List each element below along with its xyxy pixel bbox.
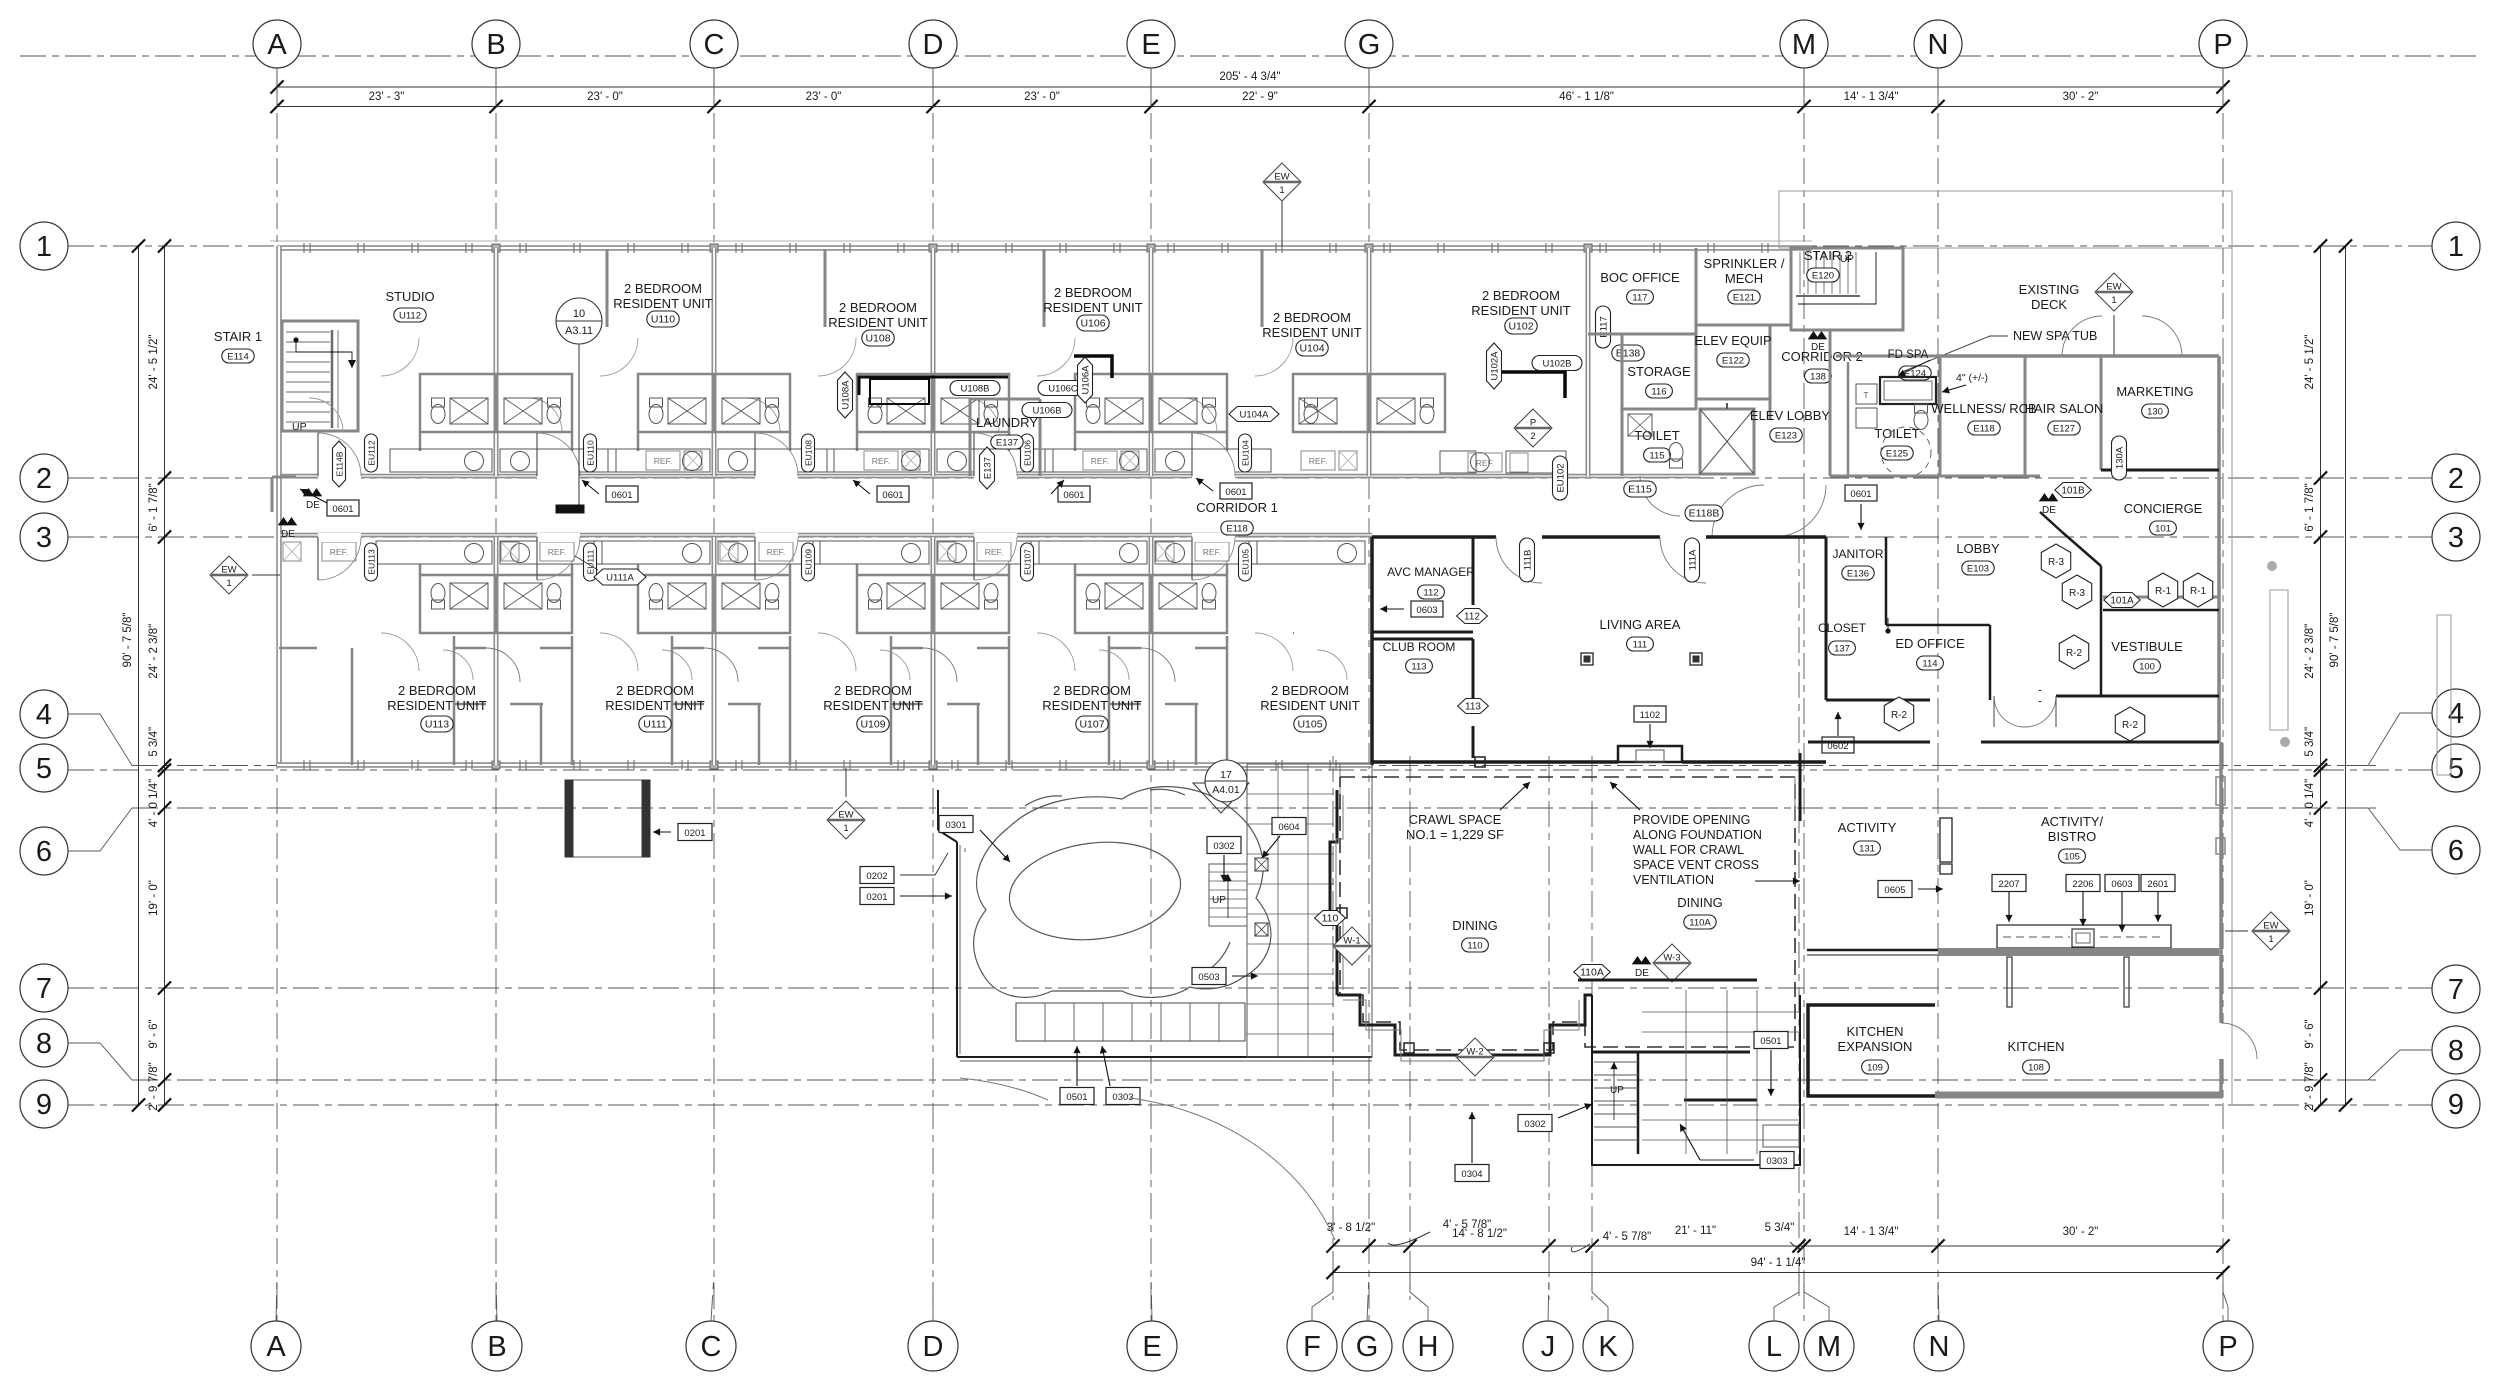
svg-text:9' - 6": 9' - 6" [2304,1019,2316,1048]
WELLNESS/RCB [2024,356,2027,476]
svg-text:2206: 2206 [2072,879,2093,890]
svg-text:24' - 5 1/2": 24' - 5 1/2" [148,335,160,390]
svg-text:4' - 0 1/4": 4' - 0 1/4" [2304,779,2316,827]
svg-text:REF.: REF. [654,456,672,466]
svg-text:4" (+/-): 4" (+/-) [1956,372,1988,384]
svg-text:23' - 3": 23' - 3" [369,91,405,103]
deck door arcs [2062,316,2102,356]
svg-text:ELEV LOBBY: ELEV LOBBY [1750,408,1831,423]
svg-text:109: 109 [1867,1063,1883,1074]
svg-text:H: H [1418,1331,1439,1363]
svg-text:U109: U109 [860,719,885,731]
svg-text:D: D [923,29,944,61]
lower unit inner door arcs [381,633,419,671]
svg-text:30' - 2": 30' - 2" [2063,91,2099,103]
svg-text:M: M [1792,29,1816,61]
svg-text:108: 108 [2028,1063,2044,1074]
svg-text:EU106: EU106 [1023,440,1033,466]
svg-text:4: 4 [36,699,52,731]
svg-text:U105: U105 [1297,719,1322,731]
svg-text:9' - 6": 9' - 6" [148,1019,160,1048]
svg-text:REF.: REF. [1203,547,1221,557]
svg-text:8: 8 [36,1028,52,1060]
svg-text:23' - 0": 23' - 0" [1024,91,1060,103]
EW/1 diamond top [1263,163,1301,201]
svg-text:6: 6 [36,836,52,868]
svg-text:6' - 1 7/8": 6' - 1 7/8" [2304,483,2316,531]
corridor west end jog [272,476,296,479]
svg-text:0303: 0303 [1112,1092,1133,1103]
cluster-to-counter connectors upper [419,432,422,451]
0201 / 0202 labels with mat [565,780,650,857]
svg-text:U102B: U102B [1542,359,1571,370]
svg-text:110: 110 [1467,941,1482,952]
svg-text:BISTRO: BISTRO [2048,829,2096,844]
left dimension lines [138,246,140,1105]
svg-text:0601: 0601 [1850,489,1871,500]
svg-text:131: 131 [1859,844,1875,855]
svg-text:2 BEDROOM: 2 BEDROOM [1482,288,1560,303]
0602 tag [1822,737,1854,753]
svg-text:117: 117 [1632,293,1647,304]
svg-text:P: P [2218,1331,2237,1363]
svg-text:U106B: U106B [1032,406,1061,417]
bottom dimension lines [1333,1245,2223,1247]
svg-text:4' - 0 1/4": 4' - 0 1/4" [148,779,160,827]
svg-text:0201: 0201 [684,828,705,839]
svg-text:U102A: U102A [1490,351,1501,381]
svg-text:U108: U108 [865,333,890,345]
svg-text:1: 1 [1279,185,1284,196]
svg-text:19' - 0": 19' - 0" [2304,880,2316,916]
svg-text:116: 116 [1651,387,1666,398]
svg-text:0302: 0302 [1524,1119,1545,1130]
section cut bar [556,505,584,513]
corridor end door arcs [1712,485,1764,537]
JANITOR [1825,537,1828,700]
svg-text:T: T [1864,391,1869,400]
svg-text:U111A: U111A [606,573,634,584]
svg-text:U108B: U108B [960,384,989,395]
kitchen north (gray) wall [1938,948,2219,956]
svg-text:AVC MANAGER: AVC MANAGER [1387,565,1475,579]
corridor 1 south wall [280,533,1372,538]
svg-text:RESIDENT UNIT: RESIDENT UNIT [605,698,704,713]
SPRINKLER/MECH room [1696,324,1791,327]
svg-text:W-1: W-1 [1343,936,1360,947]
svg-text:EXISTING: EXISTING [2019,282,2080,297]
vertical grid lines [277,68,2223,1321]
svg-text:STAIR 1: STAIR 1 [214,329,262,344]
living area south wall [1372,760,1618,764]
svg-text:EU105: EU105 [1241,549,1251,575]
lower row entry doors [318,533,361,542]
svg-text:NEW SPA TUB: NEW SPA TUB [2013,329,2097,343]
svg-text:PROVIDE OPENING: PROVIDE OPENING [1633,813,1750,827]
STAIR 2 [1791,248,1903,330]
corridor2 / E124 walls [1829,330,1832,476]
upper unit inner door arcs [381,338,419,376]
110 / 110A hexagons [1315,911,1346,926]
lower row kitchenette counters [283,542,301,561]
svg-text:E122: E122 [1722,356,1744,367]
svg-text:EU102: EU102 [1556,463,1567,492]
svg-text:110A: 110A [1689,918,1711,929]
concierge desk diagonal [2040,512,2062,532]
svg-text:0301: 0301 [945,820,966,831]
svg-text:EU110: EU110 [586,440,596,466]
svg-text:90' - 7 5/8": 90' - 7 5/8" [2329,613,2341,668]
top datum dashed line through letter bubbles [20,55,2480,57]
svg-text:E: E [1141,29,1160,61]
svg-text:5 3/4": 5 3/4" [1765,1222,1795,1234]
svg-text:E118: E118 [1226,524,1247,535]
svg-text:A: A [266,1331,286,1363]
lobby south walls [1826,699,1930,702]
EW/1 diamond left [210,556,248,594]
existing deck outline (thin) [1779,191,2232,248]
svg-text:BOC OFFICE: BOC OFFICE [1600,270,1680,285]
U102 kitchen counter [1506,451,1566,473]
pilaster squares at dividers (top wall) [492,244,500,252]
svg-text:23' - 0": 23' - 0" [587,91,623,103]
svg-text:P: P [1530,418,1536,429]
svg-text:REF.: REF. [330,547,348,557]
svg-text:N: N [1929,1331,1950,1363]
grid bubbles top [253,20,301,68]
svg-text:R-1: R-1 [2190,586,2207,597]
svg-text:UP: UP [1212,895,1226,906]
upper unit bedroom partial walls [606,249,609,327]
bistro tall cabinet [1940,818,1952,862]
svg-text:111B: 111B [1523,550,1534,571]
dining bay south walls [1337,995,1592,1055]
svg-text:EW: EW [2106,282,2121,293]
svg-text:2 BEDROOM: 2 BEDROOM [1053,683,1131,698]
svg-text:2 BEDROOM: 2 BEDROOM [624,281,702,296]
laundry room [969,399,972,476]
svg-text:DE: DE [306,500,320,511]
svg-text:EW: EW [2263,921,2278,932]
DE marks [300,489,327,503]
svg-text:J: J [1541,1331,1556,1363]
svg-text:ED OFFICE: ED OFFICE [1895,636,1965,651]
svg-text:112: 112 [1464,612,1480,623]
svg-text:N: N [1928,29,1949,61]
patio curvy deck shape [974,787,1271,998]
svg-text:B: B [487,1331,506,1363]
svg-text:G: G [1358,29,1381,61]
bold new-wall segments near laundry [859,377,1008,395]
svg-text:23' - 0": 23' - 0" [806,91,842,103]
svg-text:101B: 101B [2061,486,2085,497]
svg-text:137: 137 [1834,644,1850,655]
lower unit closet walls [454,703,486,706]
svg-text:RESIDENT UNIT: RESIDENT UNIT [613,296,712,311]
hex tag R-3 [2062,575,2091,609]
counter labels [1992,875,2026,892]
svg-text:6: 6 [2448,835,2464,867]
svg-text:24' - 5 1/2": 24' - 5 1/2" [2304,335,2316,390]
svg-text:E125: E125 [1886,449,1908,460]
dining west wall with bays [1330,790,1337,995]
upper row kitchenette counters [390,449,492,472]
svg-text:VENTILATION: VENTILATION [1633,873,1714,887]
svg-text:W-3: W-3 [1663,953,1680,964]
corridor 1 north wall [280,474,1700,479]
svg-text:9: 9 [36,1089,52,1121]
planter arcs on blob [1025,796,1062,806]
svg-text:9: 9 [2448,1089,2464,1121]
svg-text:24' - 2 3/8": 24' - 2 3/8" [2304,624,2316,679]
svg-text:1: 1 [36,231,52,263]
bath cluster at x=933 upper [857,374,1009,432]
svg-text:3: 3 [2448,522,2464,554]
svg-text:REF.: REF. [872,456,890,466]
svg-text:2 BEDROOM: 2 BEDROOM [1273,310,1351,325]
svg-text:5: 5 [2448,753,2464,785]
svg-text:112: 112 [1423,588,1438,599]
EW/1 diamond deck [2095,273,2133,311]
svg-text:1: 1 [2268,934,2273,945]
svg-text:UP: UP [292,421,307,433]
svg-text:WELLNESS/ RCB: WELLNESS/ RCB [1931,401,2036,416]
right wing east wall [2217,356,2221,742]
section marker 10/A3.11 [578,343,580,506]
svg-text:RESIDENT UNIT: RESIDENT UNIT [1260,698,1359,713]
patio stair (UP) [1209,864,1247,926]
svg-text:R-2: R-2 [2122,720,2139,731]
svg-text:1102: 1102 [1640,710,1660,721]
svg-text:114: 114 [1922,659,1937,670]
svg-text:1: 1 [2111,295,2116,306]
svg-text:0201: 0201 [866,892,887,903]
kitchen south gray wall [1935,1092,2223,1099]
corridor ext south wall (lobby top) [1830,475,2040,478]
grid bubbles bottom [251,1321,301,1371]
svg-text:C: C [704,29,725,61]
patio inner oval [1004,833,1186,949]
svg-text:REF.: REF. [548,547,566,557]
kitchen posts [2007,957,2012,1007]
svg-text:R-3: R-3 [2048,557,2065,568]
svg-text:U106A: U106A [1081,365,1092,395]
svg-text:EU112: EU112 [367,440,377,466]
svg-text:STORAGE: STORAGE [1627,364,1691,379]
svg-text:C: C [701,1331,722,1363]
spa tub [1880,377,1936,404]
HAIR SALON [2100,356,2103,470]
svg-text:U113: U113 [425,719,449,731]
bath cluster at x=714 lower [638,575,790,633]
svg-text:EW: EW [1274,172,1289,183]
W diamonds [1333,927,1371,965]
svg-text:RESIDENT UNIT: RESIDENT UNIT [823,698,922,713]
svg-text:CLUB ROOM: CLUB ROOM [1383,640,1456,654]
svg-text:14' - 1 3/4": 14' - 1 3/4" [1844,1226,1899,1238]
BOC OFFICE walls [1588,333,1696,336]
svg-text:KITCHEN: KITCHEN [2007,1039,2064,1054]
svg-text:FD SPA: FD SPA [1888,349,1929,361]
elevator shaft [1700,409,1754,474]
svg-text:EW: EW [838,810,853,821]
svg-text:0202: 0202 [866,871,887,882]
lower row bedroom partition walls [453,636,456,765]
svg-text:E137: E137 [996,438,1018,449]
E114B tag [333,441,346,487]
activity west wall pieces [1799,753,1802,821]
svg-text:2' - 9 7/8": 2' - 9 7/8" [148,1062,160,1110]
svg-text:F: F [1303,1331,1321,1363]
svg-text:EU107: EU107 [1023,549,1033,575]
svg-text:138: 138 [1810,372,1826,383]
svg-text:0601: 0601 [882,490,903,501]
svg-text:DINING: DINING [1677,895,1723,910]
serving counter [1997,925,2171,948]
svg-text:U108A: U108A [841,380,852,410]
stair block SE (bottom middle) [1592,995,1800,1165]
svg-text:U110: U110 [651,314,675,326]
far-right narrow rect [2437,615,2451,775]
svg-text:EW: EW [221,565,236,576]
svg-text:G: G [1356,1331,1379,1363]
svg-text:E120: E120 [1812,271,1834,282]
svg-text:7: 7 [36,973,52,1005]
exterior walk (right of vestibule) [2270,590,2288,730]
svg-text:U111: U111 [643,719,667,731]
left exterior wall [276,246,282,765]
svg-text:0605: 0605 [1884,885,1905,896]
bath cluster at x=1151 upper [1075,374,1227,432]
svg-text:E127: E127 [2053,424,2075,435]
CORRIDOR 2 label [1808,331,1819,339]
svg-text:2: 2 [1530,431,1535,442]
patio enclosure walls [937,790,939,830]
svg-text:110A: 110A [1580,967,1604,979]
svg-text:3: 3 [36,522,52,554]
svg-text:0501: 0501 [1066,1092,1087,1103]
cluster-to-counter connectors lower [419,564,422,575]
svg-text:RESIDENT UNIT: RESIDENT UNIT [1262,325,1361,340]
svg-text:E118: E118 [1973,424,1994,435]
svg-text:SPRINKLER /: SPRINKLER / [1704,256,1785,271]
residential band bottom exterior wall [277,762,1372,768]
svg-text:E136: E136 [1847,569,1869,580]
svg-text:EU108: EU108 [804,440,814,466]
svg-text:6' - 1 7/8": 6' - 1 7/8" [148,483,160,531]
svg-text:A3.11: A3.11 [565,325,593,337]
upper row unit divider walls [494,248,499,476]
svg-text:M: M [1817,1331,1841,1363]
svg-text:E114: E114 [227,352,248,363]
svg-text:U104: U104 [1299,343,1324,355]
svg-text:113: 113 [1411,662,1426,673]
lower band bed/bath wall line [419,632,422,635]
svg-text:94' - 1 1/4": 94' - 1 1/4" [1751,1257,1806,1269]
svg-text:0503: 0503 [1198,972,1219,983]
CLUB ROOM [1372,638,1473,641]
bath cluster at x=496 lower [420,575,572,633]
svg-text:STUDIO: STUDIO [385,289,434,304]
grid bubbles left [20,222,68,270]
svg-text:MARKETING: MARKETING [2116,384,2193,399]
svg-text:DECK: DECK [2031,297,2067,312]
svg-text:D: D [923,1331,944,1363]
svg-text:0601: 0601 [1225,487,1246,498]
vestibule south wall [2040,695,2219,698]
KITCHEN EXPANSION room [1808,1005,1935,1096]
svg-text:U112: U112 [399,311,421,322]
svg-text:R-1: R-1 [2155,586,2172,597]
svg-text:2 BEDROOM: 2 BEDROOM [834,683,912,698]
svg-text:ACTIVITY: ACTIVITY [1838,820,1897,835]
svg-text:U106: U106 [1080,318,1105,330]
bath cluster at x=1151 lower [1075,575,1227,633]
dining room posts [1404,1043,1414,1053]
svg-text:101A: 101A [2110,596,2134,607]
svg-text:5 3/4": 5 3/4" [2304,727,2316,757]
svg-text:VESTIBULE: VESTIBULE [2111,639,2183,654]
svg-text:RESIDENT UNIT: RESIDENT UNIT [387,698,486,713]
svg-text:30' - 2": 30' - 2" [2063,1226,2099,1238]
patio bench band [1016,1003,1245,1041]
stair block tile grid [1685,990,1687,1154]
terrace tile grid [1247,764,1372,1057]
svg-text:K: K [1598,1331,1618,1363]
svg-text:REF.: REF. [1476,458,1494,468]
svg-text:LOBBY: LOBBY [1956,541,2000,556]
marketing south wall [2101,469,2219,472]
svg-text:CRAWL SPACE: CRAWL SPACE [1409,812,1502,827]
E117 / E138 tags [1596,306,1611,348]
svg-text:130: 130 [2147,407,2163,418]
svg-text:ALONG FOUNDATION: ALONG FOUNDATION [1633,828,1762,842]
svg-text:21' - 11": 21' - 11" [1675,1225,1716,1237]
svg-text:4' - 5 7/8": 4' - 5 7/8" [1443,1219,1491,1231]
svg-text:E137: E137 [983,457,994,479]
svg-text:0304: 0304 [1461,1169,1482,1180]
svg-text:U102: U102 [1508,321,1533,333]
svg-text:E114B: E114B [335,451,345,476]
svg-text:RESIDENT UNIT: RESIDENT UNIT [1043,300,1142,315]
svg-text:REF.: REF. [767,547,785,557]
svg-text:2207: 2207 [1998,879,2019,890]
svg-text:1: 1 [2448,231,2464,263]
svg-text:UP: UP [1610,1085,1624,1096]
U102/U104 shared bath cluster at G [1293,374,1445,432]
hex tag R-1 [2183,573,2212,607]
upper band bed/bath wall line [419,375,422,378]
svg-text:10: 10 [573,308,585,320]
svg-text:EU111: EU111 [586,549,596,574]
svg-text:DINING: DINING [1452,918,1498,933]
svg-text:2 BEDROOM: 2 BEDROOM [616,683,694,698]
svg-text:EU104: EU104 [1241,440,1251,466]
0601 corridor tags [327,500,359,516]
living area north wall = corridor south dark [1372,535,1826,539]
STORAGE room [1621,334,1624,476]
svg-text:2601: 2601 [2147,879,2168,890]
lower-left bedroom walls near A [279,647,317,650]
EW/1 diamond right kitchen [2252,912,2290,950]
svg-text:0601: 0601 [611,490,632,501]
curved walkway lines [1130,1098,1335,1240]
svg-text:ACTIVITY/: ACTIVITY/ [2041,814,2104,829]
ELEV EQUIP room [1696,398,1770,401]
svg-text:2: 2 [2448,463,2464,495]
svg-text:REF.: REF. [1091,456,1109,466]
svg-text:E103: E103 [1967,564,1989,575]
